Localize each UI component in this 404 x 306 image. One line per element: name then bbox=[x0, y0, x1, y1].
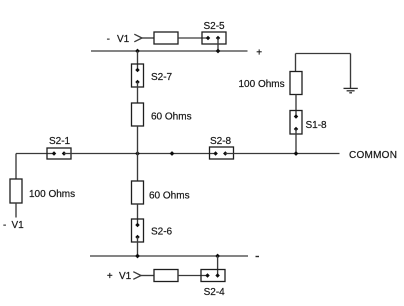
svg-text:S1-8: S1-8 bbox=[306, 120, 328, 131]
resistor 60 Ohms (lower) bbox=[132, 181, 144, 204]
node - (bottom bus right) bbox=[256, 256, 260, 258]
svg-text:+: + bbox=[256, 47, 262, 58]
svg-text:S2-1: S2-1 bbox=[49, 136, 71, 147]
switch S2-6 pin dots bbox=[135, 223, 140, 240]
resistor 60 Ohms (upper) bbox=[132, 103, 144, 126]
node -V1 (top source label) bbox=[107, 34, 130, 45]
wire bbox=[295, 95, 297, 117]
switch S2-8 bbox=[210, 147, 234, 159]
svg-text:-: - bbox=[107, 34, 110, 45]
wire (center column from top bus) bbox=[137, 51, 139, 70]
resistor 100 Ohms (right) bbox=[290, 72, 302, 95]
node -V1 (bottom left label) bbox=[3, 220, 24, 231]
svg-text:-: - bbox=[3, 220, 6, 231]
ground bbox=[344, 88, 358, 92]
svg-text:S2-7: S2-7 bbox=[151, 72, 173, 83]
svg-text:100 Ohms: 100 Ohms bbox=[239, 79, 285, 90]
svg-text:S2-4: S2-4 bbox=[204, 287, 226, 298]
wire bbox=[217, 256, 219, 275]
resistor 100 Ohms (left) bbox=[10, 179, 22, 203]
wire bbox=[217, 38, 219, 51]
svg-text:S2-5: S2-5 bbox=[204, 21, 226, 32]
svg-text:V1: V1 bbox=[12, 220, 25, 231]
svg-text:V1: V1 bbox=[117, 34, 130, 45]
wire bbox=[295, 129, 297, 154]
wire bbox=[137, 126, 139, 181]
switch S2-5 pin dots bbox=[206, 36, 221, 41]
junction bbox=[215, 254, 220, 259]
wire (common bus left stub) bbox=[16, 153, 54, 155]
resistor (top feed, unlabeled) bbox=[154, 32, 178, 44]
svg-text:S2-6: S2-6 bbox=[151, 226, 173, 237]
junction bbox=[216, 49, 221, 54]
switch S2-4 bbox=[201, 270, 225, 282]
wire (top bus) bbox=[91, 50, 248, 52]
switch S2-1 pin dots bbox=[52, 151, 67, 156]
wire bbox=[141, 275, 154, 277]
resistor (bottom feed, unlabeled) bbox=[154, 270, 178, 282]
wire bbox=[178, 275, 208, 277]
svg-text:S2-8: S2-8 bbox=[210, 136, 232, 147]
switch S1-8 pin dots bbox=[294, 114, 299, 131]
switch S2-4 pin dots bbox=[205, 273, 220, 278]
wire bbox=[137, 237, 139, 256]
wire bbox=[142, 37, 154, 39]
node +V1 (bottom source label) bbox=[107, 271, 132, 282]
wire (right branch horizontal) bbox=[296, 53, 351, 55]
junction bbox=[170, 151, 175, 156]
wire bbox=[15, 203, 17, 218]
svg-text:V1: V1 bbox=[119, 271, 132, 282]
switch S2-1 bbox=[47, 148, 71, 159]
wire (common bus right) bbox=[225, 153, 339, 155]
svg-text:+: + bbox=[107, 271, 113, 282]
junction bbox=[135, 254, 140, 259]
wire bbox=[295, 54, 297, 72]
switch S2-5 bbox=[202, 32, 226, 44]
off-page arrow (top -V1 feed) bbox=[134, 34, 142, 42]
svg-text:60 Ohms: 60 Ohms bbox=[151, 112, 192, 123]
switch S2-8 pin dots bbox=[213, 151, 227, 156]
wire (common bus mid) bbox=[64, 153, 216, 155]
switch S2-7 bbox=[132, 64, 144, 87]
switch S2-7 pin dots bbox=[135, 68, 140, 85]
off-page arrow (bottom +V1 feed) bbox=[133, 272, 141, 280]
switch S2-6 bbox=[132, 219, 144, 242]
svg-text:60 Ohms: 60 Ohms bbox=[149, 191, 190, 202]
wire (bottom bus) bbox=[90, 255, 248, 257]
switch S1-8 bbox=[290, 111, 302, 135]
junction bbox=[294, 151, 299, 156]
junction bbox=[135, 151, 140, 156]
wire bbox=[350, 54, 352, 89]
wire bbox=[137, 204, 139, 225]
wire bbox=[137, 82, 139, 103]
wire (left branch vertical) bbox=[15, 154, 17, 180]
svg-text:100 Ohms: 100 Ohms bbox=[29, 189, 75, 200]
junction bbox=[135, 49, 140, 54]
wire bbox=[178, 37, 208, 39]
svg-text:COMMON: COMMON bbox=[349, 150, 397, 161]
